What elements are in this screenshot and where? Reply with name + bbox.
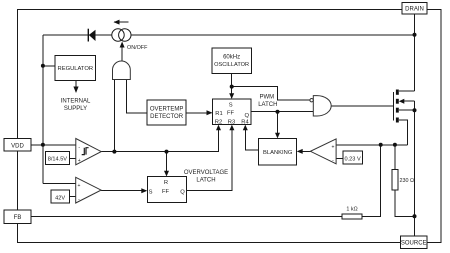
svg-text:42V: 42V (55, 195, 65, 201)
svg-text:230 Ω: 230 Ω (400, 178, 415, 184)
svg-text:60kHz: 60kHz (223, 55, 240, 61)
svg-text:+: + (78, 183, 81, 189)
svg-text:PWM: PWM (260, 95, 275, 101)
svg-text:FB: FB (14, 215, 22, 221)
svg-text:+: + (78, 158, 81, 164)
svg-text:S: S (149, 189, 153, 195)
svg-text:DETECTOR: DETECTOR (150, 114, 184, 120)
svg-text:ON/OFF: ON/OFF (127, 45, 148, 51)
svg-text:FF: FF (227, 111, 235, 117)
svg-text:OVERTEMP: OVERTEMP (150, 107, 184, 113)
svg-text:OVERVOLTAGE: OVERVOLTAGE (184, 170, 228, 176)
svg-text:INTERNAL: INTERNAL (61, 98, 91, 104)
svg-text:OSCILLATOR: OSCILLATOR (214, 62, 249, 68)
svg-text:0.23 V: 0.23 V (345, 156, 361, 162)
svg-text:R4: R4 (241, 120, 249, 126)
svg-text:R1: R1 (215, 111, 222, 117)
svg-text:DRAIN: DRAIN (405, 7, 424, 13)
svg-text:SOURCE: SOURCE (401, 241, 427, 247)
svg-text:SUPPLY: SUPPLY (64, 106, 87, 112)
svg-text:Q: Q (245, 113, 250, 119)
svg-text:R: R (164, 180, 168, 186)
svg-text:VDD: VDD (11, 143, 24, 149)
svg-text:8/14.5V: 8/14.5V (48, 157, 68, 163)
svg-text:1 kΩ: 1 kΩ (346, 206, 357, 212)
svg-text:S: S (229, 102, 233, 108)
svg-text:FF: FF (162, 189, 170, 195)
svg-text:Q: Q (180, 189, 185, 195)
svg-text:LATCH: LATCH (196, 178, 215, 184)
svg-text:LATCH: LATCH (258, 102, 277, 108)
svg-text:R3: R3 (228, 120, 235, 126)
svg-text:BLANKING: BLANKING (263, 150, 293, 156)
svg-text:+: + (332, 144, 335, 150)
svg-text:R2: R2 (215, 120, 222, 126)
svg-text:REGULATOR: REGULATOR (58, 66, 94, 72)
